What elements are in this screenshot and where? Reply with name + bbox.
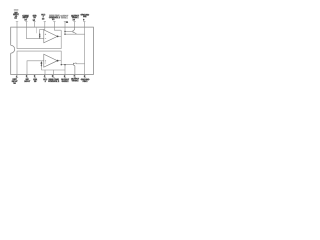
svg-text:CONTROL 1: CONTROL 1 [49,16,61,19]
svg-text:9: 9 [83,18,85,21]
wire base rail 2 from pin 6 [61,65,73,75]
wire response ctrl 1 from pin 12 [54,27,61,30]
pin 6 stub [64,75,66,78]
pin 9 stub [83,22,85,28]
pin 2 stub [26,75,28,78]
svg-text:GATE 2: GATE 2 [62,80,70,83]
pin 4 stub [44,75,46,78]
transistor Q1 [73,27,76,34]
wire ground bus right from pin 9 to pin 8 [84,27,86,74]
svg-text:11: 11 [66,21,69,24]
diode D1 chain [39,33,41,39]
pin 11 stub [64,22,66,28]
svg-text:1: 1 [16,75,18,78]
pin 16 stub [16,22,18,28]
comparator U1B [44,54,58,67]
pin 5 stub [53,75,55,78]
diode D2 triangles [41,62,43,66]
wire node A rail from pin 16 [17,27,61,48]
wire output 2 [57,60,61,62]
pin 1 stub [16,75,18,78]
junction base rail 2 [64,64,65,65]
wire emitter rail 1 [65,33,85,35]
wire input A1 from pin 15 [26,27,43,38]
pin 12 stub [53,22,55,28]
IC body outline U1 [11,27,94,74]
package notch [11,45,15,53]
wire emitter rail 2 [76,63,84,65]
wire node B rail from pin 1 [17,51,61,74]
wire response/bias rail 2 [41,66,65,75]
svg-text:TRAN 2: TRAN 2 [72,79,80,82]
svg-text:NON: NON [14,9,19,12]
wire input A2 from pin 2 [27,61,44,75]
svg-text:13: 13 [42,17,45,20]
wire strobe stub from pin 14 [36,27,38,33]
junction base rail 1 [64,31,65,32]
pin 3 stub [34,75,36,78]
op-amp U1A input polarity marks [45,34,46,39]
pin 13 stub [44,22,46,28]
comparator U1A [44,30,58,43]
svg-text:CONTROL 2: CONTROL 2 [48,80,60,83]
wire base rail 1 from pin 11 [65,27,73,34]
diode D2 chain [40,62,42,67]
wire bias 1 from pin 13 [40,27,45,33]
wire D2 to input 2 [40,60,42,63]
junction node output 1 [57,36,59,38]
junction emitter rail 1 [64,34,65,35]
pin 15 stub [25,22,27,28]
junction node output 2 [57,60,59,62]
svg-text:GATE 1: GATE 1 [61,16,69,19]
pin 10 stub [73,22,75,28]
svg-text:INPUT: INPUT [24,80,30,83]
pin 8 stub [84,75,86,78]
op-amp U1B input polarity marks [45,60,46,63]
diode D1 triangles [39,34,41,38]
junction response node 2 [61,64,62,65]
pin 7 stub [74,75,76,78]
transistor Q2 [73,63,76,75]
wire output 1 [57,35,61,37]
pin 14 stub [33,22,35,28]
